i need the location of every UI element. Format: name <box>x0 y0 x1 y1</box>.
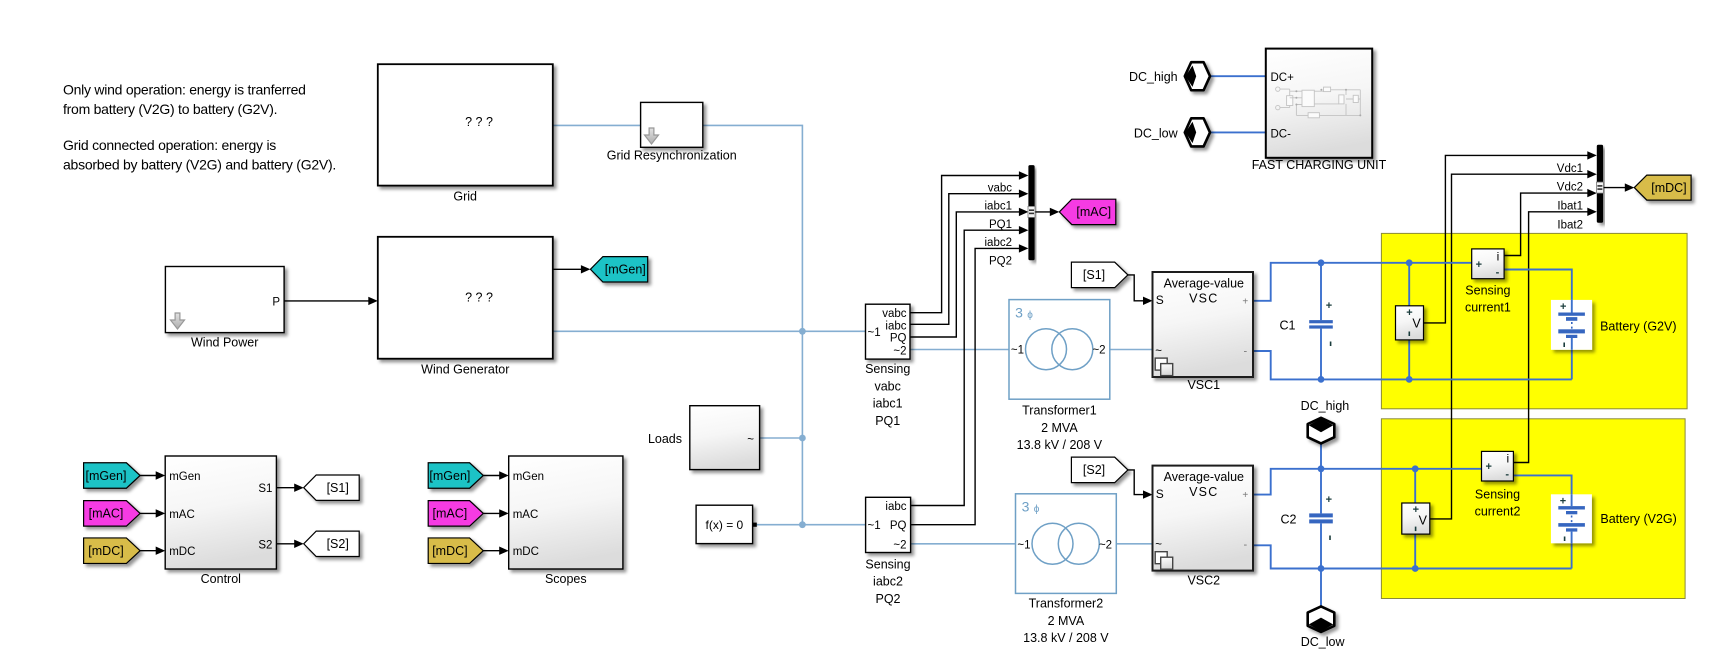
svg-text:~: ~ <box>747 434 754 446</box>
svg-text:? ? ?: ? ? ? <box>465 115 493 129</box>
svg-text:[mDC]: [mDC] <box>1651 181 1686 195</box>
svg-text:~1: ~1 <box>868 327 881 339</box>
svg-text:iabc2: iabc2 <box>985 237 1013 249</box>
svg-text:ϕ: ϕ <box>1027 310 1033 321</box>
svg-text:ϕ: ϕ <box>1034 504 1040 515</box>
svg-text:~2: ~2 <box>1099 539 1112 551</box>
svg-text:+: + <box>1242 490 1248 501</box>
svg-text:[S2]: [S2] <box>1083 463 1105 477</box>
svg-text:13.8 kV / 208 V: 13.8 kV / 208 V <box>1017 438 1103 452</box>
svg-text:~2: ~2 <box>1092 345 1105 357</box>
svg-text:Grid: Grid <box>453 190 477 204</box>
svg-text:mAC: mAC <box>513 509 539 521</box>
svg-text:vabc: vabc <box>882 308 907 320</box>
svg-text:Grid connected operation: ener: Grid connected operation: energy is <box>63 137 276 153</box>
svg-text:Sensing: Sensing <box>1475 488 1520 502</box>
svg-text:PQ2: PQ2 <box>875 592 900 606</box>
svg-text:[mGen]: [mGen] <box>86 469 127 483</box>
svg-text:mGen: mGen <box>513 471 544 483</box>
svg-text:S1: S1 <box>258 483 272 495</box>
svg-text:DC_high: DC_high <box>1129 70 1178 84</box>
svg-text:current2: current2 <box>1475 505 1521 519</box>
svg-text:Sensing: Sensing <box>865 362 910 376</box>
svg-text:-: - <box>1505 469 1509 481</box>
svg-text:+: + <box>1326 494 1332 506</box>
svg-text:FAST CHARGING UNIT: FAST CHARGING UNIT <box>1252 158 1387 172</box>
svg-text:+: + <box>1242 296 1248 307</box>
svg-text:+: + <box>1560 495 1566 507</box>
svg-text:2 MVA: 2 MVA <box>1041 421 1078 435</box>
svg-text:S: S <box>1156 293 1164 307</box>
svg-text:iabc1: iabc1 <box>873 397 903 411</box>
svg-text:Loads: Loads <box>648 432 682 446</box>
svg-text:~1: ~1 <box>1011 345 1024 357</box>
svg-text:mGen: mGen <box>169 471 200 483</box>
svg-text:+: + <box>1560 301 1566 313</box>
svg-text:V: V <box>1412 317 1421 331</box>
svg-text:PQ1: PQ1 <box>875 414 900 428</box>
svg-text:-: - <box>1243 539 1247 551</box>
svg-text:current1: current1 <box>1465 301 1511 315</box>
svg-text:Transformer2: Transformer2 <box>1029 597 1104 611</box>
svg-text:-: - <box>1496 266 1500 278</box>
svg-text:Sensing: Sensing <box>1465 284 1510 298</box>
svg-text:VSC2: VSC2 <box>1187 574 1220 588</box>
svg-text:VSC: VSC <box>1189 292 1218 306</box>
svg-text:Battery (V2G): Battery (V2G) <box>1600 512 1676 526</box>
svg-text:[mGen]: [mGen] <box>429 469 470 483</box>
svg-text:Wind Generator: Wind Generator <box>421 362 509 376</box>
svg-text:Average-value: Average-value <box>1164 277 1244 291</box>
svg-text:VSC: VSC <box>1189 485 1218 499</box>
svg-text:13.8 kV / 208 V: 13.8 kV / 208 V <box>1023 631 1109 645</box>
svg-text:Vdc2: Vdc2 <box>1557 182 1583 194</box>
svg-text:Control: Control <box>201 572 241 586</box>
svg-text:~2: ~2 <box>893 539 906 551</box>
svg-text:P: P <box>272 296 280 308</box>
svg-text:DC-: DC- <box>1271 128 1292 140</box>
svg-text:i: i <box>1497 250 1500 264</box>
svg-text:iabc2: iabc2 <box>873 575 903 589</box>
svg-text:iabc1: iabc1 <box>985 201 1013 213</box>
svg-text:f(x) = 0: f(x) = 0 <box>706 518 744 532</box>
svg-text:vabc: vabc <box>874 379 900 393</box>
svg-text:[mAC]: [mAC] <box>1076 205 1111 219</box>
svg-text:[mDC]: [mDC] <box>432 544 467 558</box>
svg-text:~: ~ <box>1155 346 1162 358</box>
svg-text:Wind Power: Wind Power <box>191 336 258 350</box>
svg-text:Battery (G2V): Battery (G2V) <box>1600 319 1676 333</box>
svg-text:C2: C2 <box>1281 512 1297 526</box>
svg-text:S: S <box>1156 487 1164 501</box>
svg-text:[mGen]: [mGen] <box>605 263 646 277</box>
svg-text:3: 3 <box>1015 305 1023 321</box>
svg-text:Average-value: Average-value <box>1164 470 1244 484</box>
svg-text:absorbed by battery (V2G) and: absorbed by battery (V2G) and battery (G… <box>63 157 336 173</box>
svg-text:PQ: PQ <box>890 333 907 345</box>
svg-text:[S2]: [S2] <box>327 537 349 551</box>
svg-text:[S1]: [S1] <box>327 481 349 495</box>
svg-text:Scopes: Scopes <box>545 572 587 586</box>
svg-text:PQ1: PQ1 <box>989 219 1012 231</box>
svg-text:? ? ?: ? ? ? <box>465 290 493 304</box>
svg-text:DC_high: DC_high <box>1301 399 1350 413</box>
svg-text:Grid Resynchronization: Grid Resynchronization <box>607 148 737 162</box>
svg-text:~1: ~1 <box>1017 539 1030 551</box>
svg-text:[mDC]: [mDC] <box>88 544 123 558</box>
svg-text:PQ2: PQ2 <box>989 255 1012 267</box>
svg-text:~2: ~2 <box>893 345 906 357</box>
svg-text:-: - <box>1243 345 1247 357</box>
svg-text:Ibat2: Ibat2 <box>1557 219 1583 231</box>
svg-text:S2: S2 <box>258 539 272 551</box>
svg-text:V: V <box>1419 513 1428 527</box>
svg-text:PQ: PQ <box>890 520 907 532</box>
svg-text:[mAC]: [mAC] <box>433 507 468 521</box>
svg-text:Only wind operation: energy is: Only wind operation: energy is tranferre… <box>63 82 306 98</box>
svg-text:mDC: mDC <box>513 546 539 558</box>
svg-text:iabc: iabc <box>885 320 906 332</box>
svg-text:DC+: DC+ <box>1271 72 1295 84</box>
svg-text:from battery (V2G) to battery: from battery (V2G) to battery (G2V). <box>63 101 277 117</box>
svg-text:~: ~ <box>1155 539 1162 551</box>
svg-text:mDC: mDC <box>169 546 195 558</box>
svg-text:+: + <box>1485 461 1491 473</box>
svg-text:[S1]: [S1] <box>1083 268 1105 282</box>
svg-text:Vdc1: Vdc1 <box>1557 163 1583 175</box>
svg-text:vabc: vabc <box>988 183 1013 195</box>
svg-text:i: i <box>1506 452 1509 466</box>
svg-text:Sensing: Sensing <box>865 557 910 571</box>
svg-text:VSC1: VSC1 <box>1187 378 1220 392</box>
svg-text:[mAC]: [mAC] <box>89 507 124 521</box>
svg-text:Ibat1: Ibat1 <box>1557 201 1583 213</box>
svg-text:2 MVA: 2 MVA <box>1048 614 1085 628</box>
svg-text:3: 3 <box>1022 499 1030 515</box>
svg-text:~1: ~1 <box>868 520 881 532</box>
svg-text:DC_low: DC_low <box>1134 126 1179 140</box>
svg-text:mAC: mAC <box>169 509 195 521</box>
svg-text:+: + <box>1476 259 1482 271</box>
svg-text:iabc: iabc <box>885 501 906 513</box>
svg-text:Transformer1: Transformer1 <box>1022 404 1097 418</box>
svg-text:+: + <box>1326 300 1332 312</box>
svg-text:DC_low: DC_low <box>1301 635 1346 649</box>
svg-text:C1: C1 <box>1280 318 1296 332</box>
